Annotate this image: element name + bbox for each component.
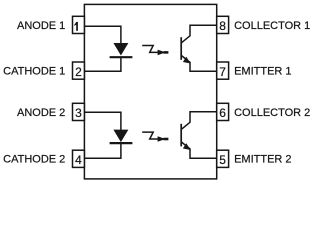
svg-text:3: 3 — [75, 106, 82, 120]
svg-text:2: 2 — [75, 65, 82, 79]
svg-text:7: 7 — [219, 65, 226, 79]
svg-text:4: 4 — [75, 153, 82, 167]
svg-text:6: 6 — [219, 106, 226, 120]
svg-text:CATHODE 2: CATHODE 2 — [3, 154, 65, 166]
svg-text:CATHODE 1: CATHODE 1 — [3, 66, 65, 78]
svg-text:ANODE 1: ANODE 1 — [17, 20, 65, 32]
svg-text:EMITTER 1: EMITTER 1 — [234, 66, 291, 78]
svg-text:COLLECTOR 2: COLLECTOR 2 — [234, 107, 310, 119]
svg-text:COLLECTOR 1: COLLECTOR 1 — [234, 20, 310, 32]
svg-text:EMITTER 2: EMITTER 2 — [234, 154, 291, 166]
svg-text:5: 5 — [219, 153, 226, 167]
svg-text:ANODE 2: ANODE 2 — [17, 107, 65, 119]
svg-text:8: 8 — [219, 19, 226, 33]
